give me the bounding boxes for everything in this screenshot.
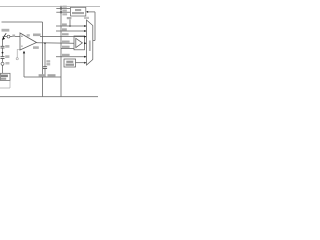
terminal circle node B: [16, 58, 18, 60]
capacitor C2 value label: [5, 55, 9, 58]
op-amp U1: [20, 33, 37, 50]
pin square SDA: [60, 8, 62, 10]
multiplexer U6: [87, 20, 93, 65]
wire VDD down: [69, 19, 71, 26]
arrow into interface box: [86, 11, 88, 13]
pin label SDA: [62, 6, 66, 8]
bottom rule: [0, 96, 98, 98]
wire decoupling branch: [44, 43, 46, 66]
pin label AIN1: [62, 28, 67, 30]
I2C interface box U3: [71, 7, 86, 16]
top rule: [0, 6, 100, 8]
node GND label: [2, 29, 10, 32]
wire op-amp non-inverting input: [3, 36, 21, 38]
op-amp plus input mark: [21, 36, 22, 37]
capacitor C3: [43, 66, 47, 68]
electrode probe arrow: [3, 33, 6, 37]
mux input arrow 1: [84, 30, 86, 32]
mux input arrow 0: [84, 25, 86, 27]
pin label row 3: [62, 13, 67, 15]
junction node D: [69, 25, 71, 27]
sensor legend box: [1, 73, 11, 80]
op-amp U1 designator label: [27, 34, 30, 36]
multiplexer vertical MUX label: [89, 41, 91, 52]
mux input arrow 5: [84, 62, 86, 64]
sensor model box top edge: [2, 21, 43, 23]
I2C interface text row 1: [75, 9, 81, 11]
sensor legend text row 2: [1, 78, 6, 80]
capacitor C1 value label: [5, 45, 9, 48]
pin label low-side: [62, 54, 70, 56]
junction node A: [2, 52, 4, 54]
wire electrode chain: [2, 40, 4, 47]
mux input arrow 4: [84, 56, 86, 58]
wire inverting input feedback: [17, 50, 20, 58]
voltage source V2 label: [12, 35, 15, 38]
junction node C: [44, 42, 46, 44]
voltage source V1: [1, 62, 4, 65]
wire ground rail to chip: [24, 76, 61, 78]
temp sensor text row 2: [66, 64, 74, 66]
net label AGND: [39, 74, 45, 77]
buffer box U4: [74, 36, 85, 50]
I2C interface text row 2: [72, 12, 84, 14]
wire temp sensor output: [76, 62, 85, 64]
sensor legend text row 1: [1, 75, 8, 78]
chip U2 left boundary: [60, 6, 62, 97]
op-amp minus input mark: [21, 46, 22, 47]
capacitor C2: [1, 56, 5, 58]
wire buffer output: [85, 42, 87, 44]
wire feedback vertical: [23, 53, 25, 77]
temp sensor text row 1: [66, 61, 73, 63]
label above mux: [84, 17, 89, 19]
wire legend ground stub: [9, 81, 11, 89]
voltage source V1 label: [5, 62, 9, 65]
wire AIN0: [56, 25, 86, 27]
pin label AIN0: [62, 23, 67, 25]
sensor model box right edge: [42, 22, 44, 97]
pin label SCL: [62, 10, 66, 12]
wire op-amp output to buffer: [37, 42, 75, 44]
wire SDA: [56, 7, 70, 9]
capacitor C3 value label 1uF: [46, 60, 50, 62]
wire interface to mux output: [88, 11, 95, 13]
wire low-side input: [56, 56, 86, 58]
net label DGND: [48, 74, 56, 77]
feedback up arrow: [23, 51, 25, 54]
wire SCL: [56, 11, 70, 13]
buffer amp triangle: [76, 38, 83, 47]
temp sensor box U5: [64, 59, 76, 67]
mux input arrow 2: [84, 36, 86, 38]
mux input arrow 3: [84, 42, 86, 44]
pin label reference: [62, 46, 70, 48]
net label VOUT: [33, 34, 41, 37]
pin label AIN2: [62, 33, 69, 35]
wire AIN1: [56, 30, 86, 32]
wire reference input: [61, 48, 74, 50]
net label under op-amp output: [33, 46, 39, 49]
voltage source V2: [7, 35, 10, 38]
capacitor C1: [1, 45, 5, 47]
pin square SCL: [60, 11, 62, 13]
pin label VDD: [67, 17, 72, 19]
wire VOUT to mux input 3: [40, 36, 86, 38]
pin label buffer input: [62, 41, 70, 43]
